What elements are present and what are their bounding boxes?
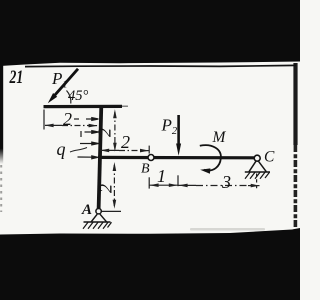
distributed load q arrows <box>74 118 98 159</box>
support C ground line <box>245 171 270 173</box>
support C hatching <box>245 172 270 179</box>
label 2 (vertical lower, rotated) <box>96 184 116 193</box>
support C triangle <box>249 161 266 171</box>
svg-text:q: q <box>57 139 66 159</box>
dimension 3 (P2 to C) <box>178 184 259 186</box>
force P2 arrow <box>176 115 181 156</box>
svg-text:1: 1 <box>157 166 166 186</box>
angle arc <box>67 91 71 104</box>
svg-text:C: C <box>264 149 275 166</box>
C extension dashed line <box>256 174 258 191</box>
svg-text:2: 2 <box>63 109 72 129</box>
cell top border line <box>25 65 296 66</box>
dimension 2 (top left) tick <box>43 110 45 130</box>
moment M arc with arrow <box>200 145 221 170</box>
hinge B circle <box>148 155 154 161</box>
svg-text:B: B <box>141 162 150 177</box>
support A hatching <box>83 222 112 229</box>
svg-text:2: 2 <box>96 184 116 193</box>
frame: top horizontal bar <box>44 105 123 108</box>
support A triangle <box>91 214 106 222</box>
svg-text:2: 2 <box>121 132 130 152</box>
frame: vertical column A-corner <box>99 106 102 210</box>
dimension 2 (top left) line with arrows <box>45 124 97 126</box>
pin A circle <box>96 209 101 214</box>
tick above B <box>148 146 150 154</box>
support A ground line <box>84 221 111 223</box>
svg-text:M: M <box>212 129 227 146</box>
frame: horizontal beam to C <box>98 156 255 160</box>
problem number 21 <box>9 67 24 87</box>
pin C circle <box>254 155 260 161</box>
faint smudge above bottom margin <box>190 228 265 231</box>
dimension 2 (vertical lower) <box>113 165 115 206</box>
svg-text:A: A <box>81 202 92 218</box>
label 2 (vertical upper, rotated) <box>95 128 115 137</box>
dimension 1 (B to P2) <box>148 177 150 188</box>
dimension 2 (column to B) <box>100 149 149 151</box>
svg-text:3: 3 <box>221 172 231 192</box>
bottom black scan margin <box>0 228 300 300</box>
top black scan margin <box>0 0 300 66</box>
left black strip <box>0 60 3 164</box>
svg-text:21: 21 <box>9 67 24 87</box>
svg-text:2: 2 <box>95 128 115 137</box>
right border strip <box>293 63 297 145</box>
lower dim base reference line <box>101 210 121 212</box>
left strip faint dotted continuation <box>0 165 2 212</box>
dimension 2 (vertical upper) <box>114 112 116 148</box>
force P1 arrow <box>48 69 78 103</box>
top bar faint stub <box>122 105 128 107</box>
